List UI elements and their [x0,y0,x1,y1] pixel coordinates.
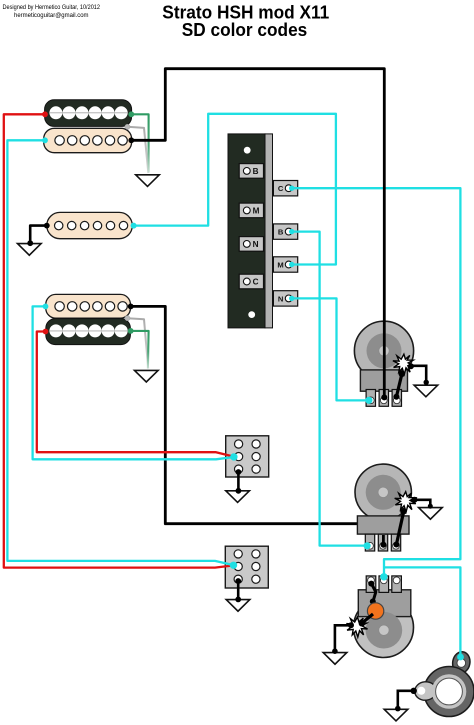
ground neck humbucker [136,175,160,187]
svg-text:B: B [278,228,284,237]
pickup neck humbucker cream coil [44,128,132,152]
node bridge green terminal [128,328,134,334]
wire cyan switch B tab to tone pot 1 [292,232,367,546]
ground bridge humbucker [135,370,159,382]
svg-text:Designed by Hermetico Guitar,: Designed by Hermetico Guitar, 10/2012 [3,4,101,11]
svg-text:M: M [253,206,260,215]
wire cyan middle pickup to switch M tab [134,114,336,265]
switch PCB body [228,134,273,328]
svg-text:B: B [253,167,259,176]
solder blob tone pot 1 left lug [364,542,371,549]
wire cyan neck humbucker to block2 [7,140,233,565]
wire volume pot casing to ground [409,366,426,383]
switch output tab C [273,181,297,196]
solder spark tone pot 2 [346,617,367,637]
solder blob output jack hot [457,654,464,661]
solder blob block2 [230,562,237,569]
volume pot middle lug dot [381,394,387,400]
wire cyan bridge humbucker to block1 [33,306,234,459]
wire grey neck humbucker to ground [127,127,148,173]
wire grey bridge humbucker to ground [127,318,148,368]
switch output tab M [273,257,297,272]
svg-text:N: N [253,240,259,249]
title [162,3,329,41]
wire cyan switch N tab to volume pot [292,298,369,400]
pickup bridge humbucker black coil [46,319,131,345]
svg-text:C: C [278,184,284,193]
ground volume pot [414,385,438,397]
wire cyan switch C line down to tone pot 2 middle lug [384,559,390,577]
solder spark tone pot 1 [395,492,416,512]
capacitor orange disc tone pot 2 [367,603,383,619]
switch output tab N [273,291,297,306]
connector block 1 (bridge pickup wires) [226,436,269,477]
node neck black terminal [128,137,134,143]
tone pot 1 middle lug wire end [381,535,387,548]
solder blob switch C tab [289,186,294,191]
wire tone pot 1 right lug to casing spark [396,511,403,545]
output jack [414,650,474,716]
node neck red terminal [42,111,48,117]
svg-text:M: M [277,260,283,269]
ground tone pot 2 [323,653,347,665]
switch inner tab C [239,274,263,289]
potentiometer tone 2 (inverted) [354,576,414,658]
node neck green terminal [128,111,134,117]
switch inner tab M [239,203,263,218]
ground jack [384,709,408,721]
solder blob block1 [230,453,237,460]
ground tone pot 1 [419,508,443,520]
connector block 1 ground wire [237,470,240,491]
connector block 2 (neck pickup wires) [225,546,268,588]
wire green bridge humbucker to ground [131,331,149,369]
node bridge bare terminal [125,316,130,321]
svg-text:C: C [253,278,259,287]
wire red bridge humbucker to block1 [37,332,234,457]
pickup neck humbucker black coil [45,100,132,127]
wire red neck humbucker to block2 [4,114,234,567]
node neck cyan terminal [42,137,48,143]
wire cyan tone pot 2 to output jack [385,567,460,656]
wire volume pot right lug to casing spark [396,374,402,397]
solder blob volume pot left lug [365,397,372,404]
connector block 2 ground wire [237,581,240,600]
switch inner tab B [239,164,263,179]
switch output tab B [273,224,297,239]
ground block1 [226,491,250,503]
pickup middle single coil [47,212,133,238]
svg-text:SD color codes: SD color codes [182,20,308,40]
pickup bridge humbucker cream coil [46,294,131,318]
wire cyan switch C output horizontal (under black wire) [292,188,460,559]
wire capacitor to casing spark [362,614,374,624]
wire black neck humbucker to volume pot [131,69,384,398]
potentiometer tone 1 [355,464,411,551]
credit text [3,4,101,19]
node bridge black terminal [128,304,134,310]
solder spark volume pot [393,354,414,374]
svg-text:hermeticoguitar@gmail.com: hermeticoguitar@gmail.com [14,12,89,19]
potentiometer volume [354,321,413,406]
wire black middle pickup to ground [30,226,47,244]
jack ground wire [398,691,414,709]
ground middle pickup [18,244,42,256]
wire black bridge humbucker to tone pot 1 (behind pot base) [131,306,384,535]
node bridge cyan terminal [43,304,49,310]
switch inner tab N [239,237,263,252]
wire tone pot 1 casing to ground [411,500,430,507]
ground block2 [226,600,250,612]
wire tone pot 2 left lug to capacitor [368,581,376,611]
svg-text:N: N [278,294,283,303]
solder blob tone pot 2 middle lug [380,573,387,580]
wire green neck humbucker to ground [131,114,148,172]
node bridge red terminal [43,329,49,335]
node neck bare terminal [125,124,130,129]
wire tone pot 2 casing to ground [335,625,352,651]
